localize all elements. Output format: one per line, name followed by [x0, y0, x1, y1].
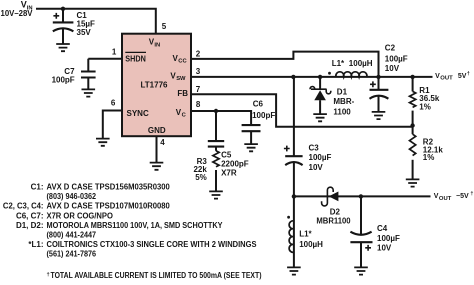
svg-text:OUT: OUT [439, 196, 451, 202]
svg-text:X7R OR COG/NPO: X7R OR COG/NPO [47, 211, 113, 220]
svg-text:7: 7 [196, 85, 201, 94]
svg-text:5: 5 [162, 22, 167, 31]
svg-text:X7R: X7R [221, 169, 237, 178]
svg-text:10V: 10V [309, 163, 324, 172]
svg-text:100µH: 100µH [349, 59, 373, 68]
svg-text:MOTOROLA MBRS1100 100V, 1A, SM: MOTOROLA MBRS1100 100V, 1A, SMD SCHOTTKY [47, 221, 224, 230]
svg-text:SW: SW [176, 76, 186, 82]
svg-text:C5: C5 [221, 151, 232, 160]
svg-text:35V: 35V [77, 28, 92, 37]
svg-text:L1*: L1* [299, 230, 312, 239]
svg-text:C3: C3 [309, 144, 320, 153]
svg-text:100pF: 100pF [252, 111, 275, 120]
svg-text:MBR1100: MBR1100 [316, 216, 351, 225]
svg-text:10V–28V: 10V–28V [1, 9, 34, 18]
svg-text:TOTAL AVAILABLE CURRENT IS LIM: TOTAL AVAILABLE CURRENT IS LIMITED TO 50… [51, 271, 262, 280]
svg-text:D2: D2 [330, 208, 341, 217]
svg-text:C2, C3, C4:: C2, C3, C4: [3, 202, 44, 211]
svg-text:5V: 5V [458, 73, 467, 80]
svg-text:10V: 10V [377, 243, 392, 252]
svg-text:2: 2 [196, 49, 201, 58]
svg-text:C6, C7:: C6, C7: [16, 211, 44, 220]
svg-text:FB: FB [177, 89, 188, 98]
svg-text:5%: 5% [195, 173, 207, 182]
svg-text:1100: 1100 [333, 108, 351, 117]
svg-text:100µF: 100µF [385, 54, 408, 63]
svg-text:MBR-: MBR- [333, 97, 354, 106]
svg-text:(561) 241-7876: (561) 241-7876 [47, 250, 97, 259]
svg-text:−5V: −5V [456, 193, 469, 200]
svg-text:C4: C4 [377, 224, 388, 233]
svg-text:C2: C2 [385, 43, 396, 52]
svg-text:4: 4 [160, 138, 165, 147]
svg-text:D1: D1 [337, 87, 348, 96]
svg-text:IN: IN [154, 43, 160, 49]
svg-text:GND: GND [148, 126, 166, 135]
svg-text:100pF: 100pF [52, 76, 75, 85]
svg-text:AVX D CASE TPSD156M035R0300: AVX D CASE TPSD156M035R0300 [47, 183, 171, 192]
svg-text:100µF: 100µF [377, 234, 400, 243]
svg-text:†: † [47, 272, 50, 278]
svg-text:1%: 1% [419, 102, 431, 111]
svg-text:(803) 946-0362: (803) 946-0362 [47, 192, 97, 201]
svg-text:1%: 1% [423, 153, 435, 162]
svg-text:AVX D CASE TPSD107M010R0080: AVX D CASE TPSD107M010R0080 [47, 202, 171, 211]
svg-text:1: 1 [112, 47, 117, 56]
svg-text:COILTRONICS CTX100-3 SINGLE CO: COILTRONICS CTX100-3 SINGLE CORE WITH 2 … [47, 240, 258, 249]
svg-text:C6: C6 [253, 100, 264, 109]
svg-text:6: 6 [111, 98, 116, 107]
svg-text:(800) 441-2447: (800) 441-2447 [47, 231, 97, 240]
svg-text:D1, D2:: D1, D2: [16, 221, 44, 230]
svg-text:100µF: 100µF [309, 153, 332, 162]
svg-text:*L1:: *L1: [28, 240, 43, 249]
svg-text:10V: 10V [385, 64, 400, 73]
svg-text:100µH: 100µH [299, 240, 323, 249]
svg-text:3: 3 [196, 67, 201, 76]
svg-text:SHDN: SHDN [125, 55, 146, 64]
svg-text:OUT: OUT [440, 76, 452, 82]
svg-text:C1:: C1: [31, 183, 44, 192]
svg-text:8: 8 [196, 100, 201, 109]
svg-text:CC: CC [178, 59, 187, 65]
svg-text:L1*: L1* [332, 59, 345, 68]
svg-text:2200pF: 2200pF [221, 160, 249, 169]
svg-text:SYNC: SYNC [127, 109, 149, 118]
svg-text:LT1776: LT1776 [141, 80, 169, 89]
svg-text:†: † [470, 191, 473, 197]
svg-text:†: † [467, 71, 470, 77]
